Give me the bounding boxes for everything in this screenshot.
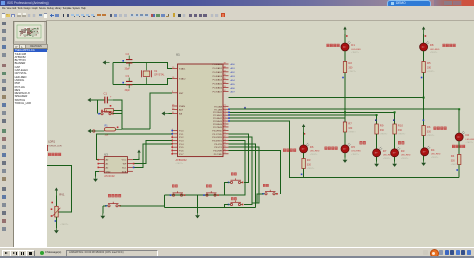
- svg-text:R9: R9: [380, 124, 384, 128]
- pin state U3 A1: [98, 163, 100, 165]
- wire R4 to bus: [458, 165, 460, 178]
- svg-text:PSEN: PSEN: [179, 106, 185, 108]
- resistor R1 reset pulldown: [93, 124, 122, 136]
- svg-text:LDR1: LDR1: [48, 140, 55, 144]
- svg-text:P3.0/RXD: P3.0/RXD: [212, 131, 222, 133]
- chip U1 MCU AT89C52: [171, 53, 235, 157]
- svg-text:P0.6/AD6: P0.6/AD6: [213, 87, 223, 90]
- button K3 left: [228, 178, 244, 183]
- wire C1 to reset node: [113, 100, 122, 114]
- wire drop to D6: [303, 132, 305, 145]
- svg-text:D1: D1: [351, 43, 355, 47]
- svg-text:P1.7: P1.7: [179, 154, 184, 156]
- label water detect: [108, 194, 121, 197]
- resistor R10: [393, 124, 406, 136]
- button K5 horn: [262, 190, 278, 195]
- ground D5: [343, 158, 348, 163]
- svg-text:30pF: 30pF: [125, 67, 131, 70]
- svg-text:ALE: ALE: [179, 109, 184, 112]
- ground RV1: [54, 228, 59, 233]
- label right-turn lamp: [325, 147, 338, 150]
- wire power to RV1: [55, 196, 57, 207]
- pin state RV1 d: [55, 220, 57, 222]
- pin state U3 A0: [98, 159, 100, 161]
- svg-text:330: 330: [307, 163, 312, 166]
- label hazard lamp right: [443, 44, 456, 47]
- wire water btn gnd stem: [102, 206, 104, 214]
- wire K4 left down: [225, 205, 229, 208]
- pin state P2.2: [228, 112, 230, 114]
- button K5 horn label: [263, 184, 269, 187]
- net label a: [244, 107, 246, 109]
- wire D8 to R5: [423, 51, 425, 61]
- svg-text:<TEXT>: <TEXT>: [427, 134, 435, 137]
- label RV1 value: [60, 223, 69, 226]
- svg-text:<TEXT>: <TEXT>: [401, 157, 409, 160]
- svg-text:D3: D3: [401, 149, 405, 153]
- junction A bundle: [344, 111, 346, 113]
- svg-text:D6: D6: [310, 145, 314, 149]
- wire P3.2 drop to K4: [229, 137, 253, 204]
- svg-text:P2.3/A11: P2.3/A11: [213, 114, 223, 117]
- pin state R5 bottom: [421, 77, 423, 79]
- svg-text:P1.4: P1.4: [179, 144, 184, 146]
- pin state RV1 a: [51, 202, 53, 204]
- ground D4: [421, 161, 426, 166]
- label alarm: [434, 127, 447, 130]
- wire water btn to bus: [120, 205, 165, 207]
- junction F bundle: [458, 108, 460, 110]
- wire R6 to D4: [423, 136, 425, 148]
- junction reset resistor: [101, 110, 103, 112]
- wire XTAL top rail: [113, 63, 172, 69]
- svg-text:AD7: AD7: [231, 91, 236, 94]
- wire P2.5 to bottom bus: [229, 121, 460, 178]
- wire R7 to D5: [344, 132, 346, 145]
- svg-text:AT89C52: AT89C52: [176, 158, 188, 162]
- svg-text:330: 330: [348, 66, 353, 69]
- wire R3 to bus: [303, 169, 305, 178]
- svg-text:P0.4/AD4: P0.4/AD4: [213, 79, 223, 82]
- wire P1.4 to U3 SDA: [133, 144, 172, 168]
- pin state U3 SCL: [133, 163, 135, 165]
- wire key bus left: [164, 195, 166, 208]
- svg-text:P3.1/TXD: P3.1/TXD: [213, 134, 223, 136]
- pin state R9 top: [375, 119, 377, 121]
- svg-text:P1.2: P1.2: [179, 137, 184, 139]
- pin state P2.4: [228, 117, 230, 119]
- wire cap ground rail: [112, 63, 114, 85]
- button reset: [98, 110, 114, 115]
- svg-text:AD3: AD3: [231, 75, 236, 78]
- svg-text:C1: C1: [104, 92, 108, 96]
- svg-text:<TEXT>: <TEXT>: [176, 162, 184, 165]
- pin state D1 top: [346, 35, 348, 37]
- label U3 part value: [104, 175, 115, 178]
- junction E bundle: [394, 111, 396, 113]
- svg-text:P2.5/A13: P2.5/A13: [213, 120, 223, 123]
- wire LDR to RV1: [46, 166, 71, 212]
- pin state R3 bottom: [301, 174, 303, 176]
- power RV1: [55, 188, 58, 196]
- svg-text:P1.3: P1.3: [179, 140, 184, 142]
- power D1: [343, 27, 346, 35]
- wire drop to R9: [376, 115, 378, 124]
- power D6: [302, 124, 305, 132]
- svg-text:<TEXT>: <TEXT>: [348, 70, 356, 73]
- capacitor C2: [125, 52, 133, 71]
- status bar: [0, 247, 474, 257]
- label light detect: [48, 153, 61, 156]
- pin state A above R7: [343, 122, 345, 124]
- wire P3.4 drop: [229, 144, 256, 208]
- svg-text:TORCH_LDR: TORCH_LDR: [48, 145, 62, 147]
- junction B top: [423, 97, 425, 99]
- wire water btn left: [103, 205, 106, 207]
- wire U3 power: [133, 158, 139, 160]
- LED D4: [421, 146, 441, 159]
- capacitor C1 electrolytic: [104, 92, 114, 104]
- toolbar: [0, 12, 474, 22]
- svg-text:P3.5/T1: P3.5/T1: [214, 147, 222, 149]
- svg-text:R6: R6: [427, 125, 431, 129]
- wire drop to D2: [458, 109, 460, 133]
- svg-text:SDA: SDA: [122, 170, 127, 173]
- svg-text:XTAL1: XTAL1: [179, 68, 186, 71]
- menu bar: [0, 6, 474, 12]
- svg-text:CRYSTAL: CRYSTAL: [154, 74, 165, 77]
- svg-text:330: 330: [427, 66, 432, 69]
- ground water btn: [100, 214, 105, 219]
- svg-text:<TEXT>: <TEXT>: [307, 167, 315, 170]
- svg-text:VCC: VCC: [122, 160, 127, 162]
- chip U3 EEPROM AT24C02: [99, 153, 133, 174]
- svg-text:P3.6/WR: P3.6/WR: [213, 150, 222, 152]
- resistor R7: [343, 122, 356, 134]
- LED D7: [373, 147, 393, 160]
- left tool column: [0, 20, 9, 248]
- LED D1: [341, 41, 361, 54]
- svg-text:LED-RED: LED-RED: [430, 49, 440, 51]
- svg-text:<TEXT>: <TEXT>: [348, 130, 356, 133]
- svg-text:LED-RED: LED-RED: [351, 151, 361, 153]
- svg-text:LED-RED: LED-RED: [431, 154, 441, 156]
- LED D2: [455, 131, 474, 144]
- wire P3.5 drop: [229, 147, 260, 203]
- svg-text:P1.1: P1.1: [179, 134, 184, 136]
- svg-text:<TEXT>: <TEXT>: [466, 141, 474, 144]
- label U1 part value: [176, 158, 188, 165]
- svg-text:P2.7/A15: P2.7/A15: [213, 126, 223, 129]
- svg-text:RST: RST: [179, 93, 184, 95]
- wire D7 to ground: [376, 157, 378, 162]
- ground crystal caps: [103, 60, 110, 64]
- label left-turn lamp: [327, 44, 340, 47]
- pin state D8 top: [425, 35, 427, 37]
- wire P3.1 drop to K3: [229, 134, 249, 183]
- wire D6 to R3: [303, 153, 305, 158]
- pin state R6 top: [423, 119, 425, 121]
- svg-text:P2.2/A10: P2.2/A10: [213, 111, 223, 114]
- button K1 accel: [170, 191, 186, 196]
- wire R10 to D3: [394, 134, 396, 149]
- capacitor C3: [125, 74, 133, 92]
- pin state D6 top: [304, 133, 306, 135]
- button K4 right: [228, 201, 244, 206]
- wire drop to R10: [394, 112, 396, 124]
- pin state RV1 c: [51, 215, 53, 217]
- label right turn: [398, 141, 404, 144]
- wire gnd to R1: [91, 130, 93, 132]
- svg-text:C3: C3: [126, 74, 130, 78]
- svg-text:P3.7/RD: P3.7/RD: [214, 154, 223, 156]
- wire D5 to ground: [344, 153, 346, 157]
- wire key bus upper: [165, 194, 219, 196]
- wire P2.3 to column D: [229, 114, 377, 116]
- svg-text:<TEXT>: <TEXT>: [431, 156, 439, 159]
- canvas background: [46, 20, 474, 248]
- svg-text:C2: C2: [126, 52, 130, 56]
- svg-text:R5: R5: [427, 61, 431, 65]
- button K2 decel: [203, 191, 219, 196]
- svg-text:30pF: 30pF: [125, 89, 131, 92]
- svg-text:<TEXT>: <TEXT>: [383, 157, 391, 160]
- ground keys: [195, 213, 200, 218]
- junction C3 state: [122, 82, 124, 84]
- wire power to C1: [91, 99, 104, 101]
- svg-text:P0.5/AD5: P0.5/AD5: [213, 83, 223, 86]
- svg-text:P2.1/A9: P2.1/A9: [214, 108, 223, 111]
- wire D4 to ground: [423, 156, 425, 161]
- bottom edge strip: [0, 256, 474, 258]
- svg-text:P0.3/AD3: P0.3/AD3: [213, 75, 223, 78]
- power arrow EA: [162, 111, 169, 115]
- resistor R4: [451, 154, 461, 166]
- svg-text:<TEXT>: <TEXT>: [351, 153, 359, 156]
- wire P2.4 to column A: [229, 117, 346, 119]
- svg-text:P2.4/A12: P2.4/A12: [213, 117, 223, 120]
- junction D bundle: [376, 114, 378, 116]
- ground R1: [88, 129, 95, 133]
- wire D1 to R2: [344, 51, 346, 61]
- wire U3 gnd pin: [96, 171, 100, 176]
- svg-text:<TEXT>: <TEXT>: [451, 163, 459, 166]
- svg-text:R1: R1: [105, 124, 109, 127]
- LED D5: [341, 143, 361, 156]
- svg-text:D8: D8: [430, 43, 434, 47]
- svg-text:330: 330: [427, 130, 432, 133]
- wire power to D8: [423, 34, 425, 43]
- pin state RV1 b: [51, 208, 53, 210]
- wire R5 down to R6: [423, 73, 425, 126]
- wire P0.7 to column B: [229, 97, 424, 99]
- ground D7: [374, 162, 379, 167]
- pin state P2.3: [228, 114, 230, 116]
- wire RV1 to ground: [55, 217, 57, 228]
- object selector panel: [9, 20, 46, 248]
- svg-text:330: 330: [348, 127, 353, 130]
- wire P3.3 drop to key bus: [219, 141, 245, 196]
- wire P2.1 to column F: [229, 108, 460, 110]
- svg-text:<TEXT>: <TEXT>: [427, 70, 435, 73]
- wire P3.6 drop to K5: [229, 151, 281, 194]
- pin state R2 bottom: [342, 77, 344, 79]
- power D8: [422, 27, 425, 35]
- power arrow C1: [87, 98, 94, 102]
- junction C1 right: [110, 105, 112, 107]
- label left lamp: [283, 149, 296, 152]
- power U3: [137, 150, 140, 158]
- svg-text:R7: R7: [348, 122, 352, 126]
- svg-text:LED-RED: LED-RED: [310, 151, 320, 153]
- crystal X1: [142, 63, 166, 85]
- label hazard lamp left: [452, 145, 465, 148]
- svg-text:P1.6: P1.6: [179, 150, 184, 152]
- wire P1.1 to U3 CE: [97, 134, 173, 160]
- pin state P2.1: [228, 108, 230, 110]
- svg-text:LED-RED: LED-RED: [351, 49, 361, 51]
- svg-text:P3.2/INT0: P3.2/INT0: [212, 137, 223, 139]
- resistor R5: [422, 61, 435, 73]
- svg-text:<TEXT>: <TEXT>: [60, 223, 69, 226]
- button water detect: [105, 202, 121, 207]
- wire R9 to D7: [376, 134, 378, 149]
- svg-text:GND: GND: [106, 171, 111, 173]
- wire key ground stem: [197, 195, 199, 213]
- svg-text:<TEXT>: <TEXT>: [351, 51, 359, 54]
- LED D8: [420, 41, 440, 54]
- svg-text:P0.7/AD7: P0.7/AD7: [213, 91, 223, 94]
- wire power to D1: [344, 34, 346, 43]
- wire P2.2 to column E: [229, 111, 395, 113]
- svg-text:LED-RED: LED-RED: [466, 139, 474, 141]
- resistor R2: [343, 61, 356, 73]
- photoresistor LDR1: [46, 140, 62, 151]
- junction R1 right: [117, 127, 119, 129]
- svg-text:D5: D5: [351, 145, 355, 149]
- resistor R3: [302, 158, 315, 170]
- svg-text:D2: D2: [466, 133, 470, 137]
- svg-text:<TEXT>: <TEXT>: [380, 132, 388, 135]
- wire D2 to R4: [458, 141, 460, 154]
- svg-text:X1: X1: [154, 69, 158, 73]
- ground D3: [392, 162, 397, 167]
- svg-text:U1: U1: [176, 53, 180, 57]
- pin state U3 A2: [98, 167, 100, 169]
- ground U3: [93, 177, 98, 182]
- resistor R6: [422, 125, 435, 137]
- svg-text:P0.2/AD2: P0.2/AD2: [213, 71, 223, 74]
- svg-text:P3.3/INT1: P3.3/INT1: [212, 140, 223, 142]
- label left turn: [360, 141, 366, 144]
- svg-text:D7: D7: [383, 149, 387, 153]
- svg-text:P0.1/AD1: P0.1/AD1: [213, 67, 223, 70]
- button K1 accel label: [172, 185, 178, 188]
- junction C2 state: [122, 60, 124, 62]
- resistor R9: [375, 124, 388, 136]
- potentiometer RV1: [52, 192, 65, 217]
- wire EA to chip: [169, 113, 173, 115]
- wire P1.3 to U3 SCL: [133, 141, 172, 164]
- svg-text:XTAL2: XTAL2: [179, 78, 186, 81]
- resistor reset series: [105, 109, 114, 112]
- svg-text:P0.0/AD0: P0.0/AD0: [213, 63, 223, 66]
- svg-text:R3: R3: [307, 158, 311, 162]
- svg-text:RV1: RV1: [59, 192, 65, 196]
- wire K3 left down: [225, 182, 229, 195]
- title bar: [0, 0, 474, 6]
- svg-text:AD4: AD4: [231, 79, 236, 82]
- button K2 decel label: [206, 185, 212, 188]
- wire reset button right: [113, 111, 122, 114]
- svg-text:<TEXT>: <TEXT>: [430, 51, 438, 54]
- svg-text:R4: R4: [451, 154, 455, 158]
- svg-text:AD6: AD6: [231, 87, 236, 90]
- wire R2 down to R7: [344, 73, 346, 123]
- wire K5 left to bus: [252, 194, 263, 203]
- svg-text:330: 330: [380, 129, 385, 132]
- svg-text:AD1: AD1: [231, 67, 236, 70]
- svg-text:AT24C02: AT24C02: [104, 175, 115, 178]
- pin state P2.5: [228, 120, 230, 122]
- pin state R4 bottom: [456, 169, 458, 171]
- svg-text:AD0: AD0: [231, 63, 236, 66]
- wire D3 to ground: [394, 157, 396, 162]
- svg-text:P2.6/A14: P2.6/A14: [213, 123, 223, 126]
- pin state U3 SDA: [133, 167, 135, 169]
- svg-text:LED-RED: LED-RED: [401, 155, 411, 157]
- wire reset node left: [97, 100, 99, 114]
- svg-text:<TEXT>: <TEXT>: [310, 153, 318, 156]
- button K3 left label: [231, 173, 237, 176]
- svg-text:10k: 10k: [105, 134, 110, 136]
- svg-text:330: 330: [451, 159, 456, 162]
- svg-text:WP: WP: [123, 164, 127, 166]
- button K4 right label: [231, 197, 237, 200]
- LED D6: [300, 143, 320, 156]
- svg-text:AD5: AD5: [231, 83, 236, 86]
- svg-text:P1.0: P1.0: [179, 131, 184, 133]
- wire RST riser: [150, 93, 172, 129]
- svg-text:AD2: AD2: [231, 71, 236, 74]
- svg-text:R2: R2: [348, 61, 352, 65]
- wire RST to chip: [122, 114, 150, 129]
- svg-text:330: 330: [398, 129, 403, 132]
- wire key bus lower: [165, 207, 256, 209]
- LED D3: [391, 147, 411, 160]
- svg-text:+: +: [110, 95, 112, 98]
- svg-text:P3.4/T0: P3.4/T0: [214, 144, 222, 146]
- svg-text:P2.0/A8: P2.0/A8: [214, 105, 223, 108]
- svg-text:R10: R10: [398, 124, 404, 128]
- svg-text:<TEXT>: <TEXT>: [398, 132, 406, 135]
- wire XTAL bottom rail: [113, 79, 172, 85]
- pin state R10 top: [393, 119, 395, 121]
- svg-text:P1.5: P1.5: [179, 147, 184, 149]
- svg-text:U3: U3: [104, 153, 108, 157]
- svg-text:D4: D4: [431, 148, 435, 152]
